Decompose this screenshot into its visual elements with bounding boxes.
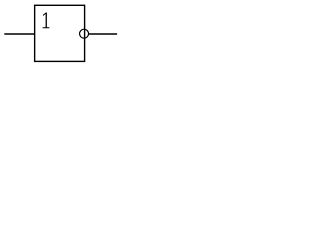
inversion bubble bbox=[80, 29, 89, 38]
wire (input, left) bbox=[4, 33, 34, 35]
gate function label "1" (drawn glyph with foot serif) bbox=[43, 13, 50, 29]
wire (output, right) bbox=[89, 33, 117, 35]
inverter gate body (IEC NOT gate rectangle) bbox=[35, 5, 85, 61]
